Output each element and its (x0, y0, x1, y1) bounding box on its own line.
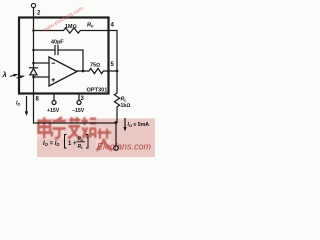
svg-text:75Ω: 75Ω (90, 62, 100, 68)
svg-text:IO = ID: IO = ID (43, 141, 59, 147)
svg-text:OPT301: OPT301 (87, 88, 108, 94)
svg-text:RF: RF (87, 22, 94, 28)
svg-text:−15V: −15V (72, 108, 85, 114)
svg-text:RL: RL (121, 96, 128, 102)
svg-text:1 +: 1 + (68, 141, 77, 147)
svg-text:+15V: +15V (47, 108, 60, 114)
svg-text:ID: ID (16, 101, 21, 107)
svg-text:λ: λ (2, 70, 7, 79)
svg-text:40pF: 40pF (51, 40, 64, 46)
svg-text:Elecfans.com: Elecfans.com (97, 142, 152, 152)
svg-text:1MΩ: 1MΩ (65, 24, 77, 30)
svg-text:1kΩ: 1kΩ (121, 103, 131, 109)
svg-text:RL: RL (78, 144, 84, 150)
svg-text:IO ≤ 5mA: IO ≤ 5mA (128, 122, 150, 128)
